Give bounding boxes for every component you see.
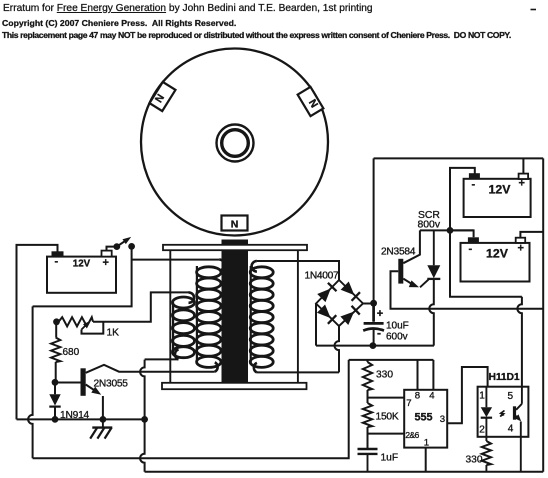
- battery B2 minus label: [472, 179, 476, 191]
- svg-text:10uF: 10uF: [386, 321, 409, 332]
- svg-text:1: 1: [479, 390, 485, 401]
- battery B2 minus wire: [450, 168, 475, 231]
- svg-text:+: +: [103, 257, 109, 269]
- battery B3 plus terminal: [516, 238, 526, 243]
- wire B3 plus to right rail: [520, 232, 543, 238]
- ground symbol: [90, 419, 112, 438]
- diode D1 1N914: [49, 382, 60, 419]
- switch throw dot: [128, 243, 135, 250]
- opto U2 H11D1 box: [478, 387, 529, 437]
- wire emitter down to ground wire: [102, 396, 104, 419]
- wire pot to trigger winding: [93, 292, 189, 321]
- svg-text:3: 3: [440, 414, 445, 425]
- node dot cap-minus: [370, 342, 377, 349]
- label pin7: [406, 398, 411, 409]
- svg-text:680: 680: [63, 347, 80, 358]
- rotor wheel: [141, 49, 328, 236]
- label 330a: [376, 370, 393, 381]
- trigger return wire: [145, 358, 179, 360]
- switch pole dot: [113, 243, 120, 250]
- transistor Q2 2N3584 base bar: [398, 259, 403, 284]
- coil trigger winding (small): [173, 292, 195, 359]
- battery B1 (12V left): [47, 257, 116, 293]
- coil bobbin left rail: [169, 250, 171, 383]
- svg-text:1K: 1K: [107, 328, 120, 339]
- rotor hub inner: [222, 130, 249, 157]
- label pin2&6: [405, 430, 419, 440]
- wire battery-minus node to opto pin5: [450, 230, 522, 296]
- svg-text:-: -: [377, 326, 381, 340]
- svg-text:+: +: [377, 308, 383, 320]
- label 2N3584: [381, 247, 416, 258]
- label 1N4007: [305, 271, 340, 282]
- node dot diode-ground: [52, 416, 59, 423]
- scan mark: [531, 9, 537, 11]
- wire minus bus: [316, 345, 434, 347]
- opto LED: [481, 387, 492, 437]
- node dot trigger-return ground: [141, 416, 148, 423]
- ground wire: [17, 418, 145, 420]
- header line 1: erratum title: [3, 3, 373, 14]
- Q1 collector wire to main winding: [86, 365, 215, 373]
- label 680: [63, 347, 80, 358]
- battery B3 minus terminal: [468, 237, 479, 243]
- label 10uF: [386, 321, 409, 332]
- wire junction to pin2&6: [368, 433, 405, 435]
- wire cap plus rail: [373, 158, 375, 321]
- right outer rail: [542, 158, 544, 471]
- label pin3: [440, 414, 445, 425]
- battery B1 plus terminal: [102, 251, 112, 257]
- svg-text:H11D1: H11D1: [489, 372, 520, 383]
- label pin1: [424, 438, 429, 449]
- left second rail (battery negative return): [28, 306, 32, 458]
- wire pin4 drop: [432, 360, 434, 390]
- label 1K: [107, 328, 120, 339]
- IC 555 box: [404, 390, 447, 448]
- capacitor C2 1uF: [358, 449, 378, 472]
- label 2N3055: [94, 379, 129, 390]
- rotor hub outer: [217, 125, 254, 162]
- battery B3 minus label: [469, 243, 473, 255]
- resistor 680: [51, 338, 60, 363]
- wire A second rail to 555 supply: [33, 360, 349, 458]
- wire 330-150K junction: [367, 390, 369, 403]
- svg-text:4: 4: [429, 390, 435, 401]
- node dot pot-680: [53, 318, 60, 325]
- wire bridge top to output winding: [257, 261, 339, 280]
- battery B2 12V label: [489, 182, 512, 196]
- node dot base: [52, 379, 59, 386]
- wire pin3 to opto pin1: [447, 367, 487, 423]
- wire bridge right to cap plus: [363, 303, 374, 305]
- label SCR: [418, 210, 440, 221]
- svg-text:8: 8: [415, 390, 420, 401]
- capacitor C1 10uF plates: [363, 303, 384, 345]
- coil top plate: [163, 245, 307, 250]
- svg-text:2N3055: 2N3055: [94, 379, 129, 390]
- SCR D2 800v: [420, 230, 440, 287]
- coil core (iron): [222, 240, 249, 384]
- battery B1 12V label: [73, 259, 91, 270]
- battery B1 minus label: [55, 256, 59, 268]
- wire top-left rail to battery minus: [17, 245, 58, 420]
- label opto pin4: [508, 423, 514, 434]
- svg-text:2&6: 2&6: [405, 430, 419, 440]
- svg-text:+: +: [518, 243, 524, 255]
- opto light arrow: [500, 411, 505, 417]
- wire B2 plus to top wire: [522, 158, 524, 173]
- magnet N bottom: [222, 216, 248, 231]
- svg-text:12V: 12V: [489, 182, 512, 196]
- 555 supply rail: [349, 359, 434, 361]
- battery B2 plus terminal: [519, 174, 529, 179]
- wire pin8 drop: [417, 360, 419, 390]
- svg-text:12V: 12V: [486, 246, 509, 260]
- opto phototransistor: [513, 387, 522, 472]
- svg-text:1uF: 1uF: [381, 453, 399, 464]
- svg-text:2: 2: [479, 424, 485, 435]
- resistor R330a (330): [363, 362, 372, 390]
- svg-text:N: N: [231, 219, 239, 231]
- label 1N914: [60, 410, 90, 421]
- label 555: [414, 411, 432, 423]
- svg-text:5: 5: [508, 391, 514, 402]
- bottom common wire: [145, 471, 544, 473]
- svg-text:150K: 150K: [376, 412, 399, 423]
- battery B1 minus terminal: [52, 251, 64, 256]
- wire dot to 680: [55, 322, 57, 338]
- svg-text:2N3584: 2N3584: [381, 247, 416, 258]
- bridge diode upper-left: [317, 283, 336, 302]
- coil bottom plate: [162, 383, 307, 389]
- wire 680 to base node: [55, 362, 57, 381]
- Q2 base wire loop: [391, 271, 544, 309]
- wire 150K to pin2&6 junction: [367, 427, 369, 449]
- battery B2 plus label: [519, 178, 525, 190]
- SCR gate/anode top wire: [420, 229, 474, 231]
- wire switch rail to main winding top: [132, 259, 220, 261]
- wire opto pin5 drop: [517, 297, 522, 387]
- svg-text:12V: 12V: [73, 259, 91, 270]
- wire switch rail down: [33, 246, 132, 306]
- Q2 collector wire: [403, 230, 420, 263]
- transistor Q1 2N3055 base bar: [81, 368, 86, 396]
- svg-text:330: 330: [376, 370, 393, 381]
- wire battery plus to switch: [107, 247, 117, 251]
- svg-text:7: 7: [406, 398, 411, 409]
- bridge diode upper-right: [341, 281, 360, 300]
- SCR cathode wire: [429, 279, 433, 346]
- svg-text:4: 4: [508, 423, 514, 434]
- bridge rectifier 1N4007 diamond: [316, 280, 363, 326]
- wire junction to pin7: [368, 397, 405, 399]
- label H11D1: [489, 372, 520, 383]
- label opto pin5: [508, 391, 514, 402]
- label pin8: [415, 390, 420, 401]
- svg-text:1N4007: 1N4007: [305, 271, 340, 282]
- node main-winding top joins rail: [0, 0, 1, 1]
- resistor 1K (pot): [59, 317, 94, 326]
- Q2 emitter: [403, 279, 419, 288]
- Q1 emitter: [86, 385, 102, 395]
- svg-text:-: -: [469, 243, 473, 255]
- wire base node to Q1 base: [55, 382, 81, 384]
- svg-text:600v: 600v: [386, 332, 408, 343]
- battery B2 minus terminal: [469, 173, 480, 179]
- pot wiper arm: [82, 321, 104, 333]
- node dot emitter-ground: [100, 416, 107, 423]
- label 1uF: [381, 453, 399, 464]
- bridge diode lower-right: [340, 306, 360, 325]
- label opto pin1: [479, 390, 485, 401]
- label opto pin2: [479, 424, 485, 435]
- label 800v: [418, 220, 441, 231]
- wire bridge bottom to output winding: [257, 326, 339, 372]
- wire battery group middle: [450, 230, 474, 237]
- battery B1 plus label: [103, 257, 109, 269]
- label 330b: [466, 455, 483, 466]
- svg-text:-: -: [472, 179, 476, 191]
- label cap plus: [377, 308, 383, 320]
- top supply wire: [374, 157, 544, 159]
- svg-text:-: -: [55, 256, 59, 268]
- wire bridge left (minus) down: [315, 304, 317, 346]
- coil bobbin right rail: [297, 250, 299, 383]
- resistor R330b (330): [482, 437, 491, 472]
- resistor R150K (150K): [363, 403, 372, 427]
- coil main winding left (power): [197, 260, 225, 372]
- battery B3 12V label: [486, 246, 509, 260]
- node dot bridge-plus: [370, 300, 377, 307]
- header line 2: copyright: [2, 18, 236, 28]
- label 150K: [376, 412, 399, 423]
- node dot SCR-battery: [447, 227, 454, 234]
- header line 3: notice: [2, 30, 511, 40]
- magnet N upper-right: [298, 87, 324, 116]
- label pin4: [429, 390, 435, 401]
- trigger return vertical: [140, 360, 145, 472]
- svg-text:555: 555: [414, 411, 432, 423]
- resistor R330a stub: [367, 360, 369, 362]
- magnet N upper-left: [150, 82, 176, 111]
- battery B3 (12V bottom right): [461, 243, 530, 282]
- battery B2 (12V top right): [464, 179, 531, 217]
- svg-text:330: 330: [466, 455, 483, 466]
- svg-text:800v: 800v: [418, 220, 441, 231]
- label cap minus: [377, 326, 381, 340]
- battery B3 plus label: [518, 243, 524, 255]
- switch blade: [117, 237, 131, 247]
- coil main winding right (output): [250, 261, 273, 372]
- label 600v: [386, 332, 408, 343]
- svg-text:1: 1: [424, 438, 429, 449]
- wire pin1 stub: [425, 448, 427, 472]
- bridge diode lower-left: [317, 304, 336, 323]
